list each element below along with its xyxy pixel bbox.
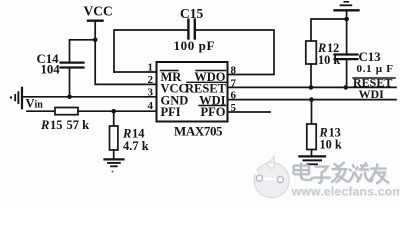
svg-text:1: 1 bbox=[148, 62, 154, 74]
node C14-GND junction bbox=[67, 95, 72, 100]
svg-text:WDI: WDI bbox=[359, 87, 385, 101]
C14 value labels bbox=[37, 52, 61, 77]
RESET net label bbox=[353, 76, 392, 90]
R12 value label bbox=[317, 41, 340, 67]
svg-text:4.7 k: 4.7 k bbox=[123, 139, 149, 153]
wire Vin input bbox=[27, 110, 55, 112]
op-amp U1 MAX705 IC body bbox=[157, 62, 228, 122]
IC pin labels left column bbox=[161, 70, 189, 119]
svg-text:R: R bbox=[40, 118, 49, 132]
wire MR loop (pin1 up, across top, down to WDO pin8) bbox=[114, 30, 188, 72]
wire C13 to RESET line bbox=[346, 60, 348, 88]
node PFI junction bbox=[111, 109, 116, 114]
resistor R13 bbox=[307, 124, 316, 150]
wire VCC branch to C14 bbox=[70, 40, 96, 62]
overline RESET bbox=[187, 81, 226, 83]
resistor R14 bbox=[110, 126, 118, 150]
overline PFO bbox=[199, 105, 226, 107]
speck bbox=[112, 171, 114, 173]
overline MR bbox=[161, 70, 179, 72]
wire VCC to C13 bbox=[346, 19, 348, 54]
svg-text:15: 15 bbox=[50, 118, 63, 132]
overline WDO bbox=[196, 70, 226, 72]
wire VCC stem right bbox=[346, 10, 348, 19]
svg-text:8: 8 bbox=[231, 65, 237, 77]
svg-text:V: V bbox=[26, 97, 35, 111]
svg-text:57 k: 57 k bbox=[67, 118, 90, 132]
VCC rail symbol bbox=[88, 20, 103, 22]
pin numbers right bbox=[231, 65, 237, 114]
R15 value label bbox=[40, 118, 89, 132]
MAX705 part label bbox=[174, 123, 223, 138]
svg-text:MAX705: MAX705 bbox=[174, 123, 223, 138]
watermark text dian bbox=[294, 162, 390, 184]
wire GND line to pin 3 bbox=[22, 96, 157, 98]
wire VCC stem down to pin 2 bbox=[95, 21, 156, 85]
ground (below R13) bbox=[300, 155, 326, 157]
capacitor C14 bbox=[61, 61, 84, 63]
svg-text:C15: C15 bbox=[180, 6, 203, 21]
capacitor C13 bbox=[335, 53, 358, 55]
ground (below R14) bbox=[105, 158, 124, 160]
VCC label bbox=[84, 4, 113, 19]
watermark url www.elecfans.com bbox=[291, 184, 400, 199]
wire WDI node down to R13 bbox=[311, 100, 313, 124]
resistor R12 bbox=[306, 41, 317, 64]
wire R13 to ground bbox=[311, 150, 313, 156]
svg-text:3: 3 bbox=[148, 86, 154, 98]
svg-text:PFO: PFO bbox=[201, 105, 226, 119]
svg-text:10 k: 10 k bbox=[320, 137, 342, 151]
svg-text:2: 2 bbox=[148, 74, 154, 86]
Vin label bbox=[26, 97, 44, 111]
wire pin 6 WDI net bbox=[228, 99, 396, 101]
C15 value labels bbox=[174, 6, 216, 53]
svg-text:in: in bbox=[35, 100, 44, 111]
wire pin 1 to IC bbox=[114, 71, 157, 73]
pin numbers left bbox=[148, 62, 154, 112]
wire pin 7 RESET net bbox=[228, 86, 396, 88]
wire PFI node down to R14 bbox=[113, 111, 115, 126]
watermark logo bbox=[252, 157, 290, 198]
svg-text:VCC: VCC bbox=[84, 4, 113, 19]
node C13-RESET junction bbox=[344, 85, 349, 90]
wire R14 to ground bbox=[113, 150, 115, 159]
wire C14 bottom lead bbox=[69, 68, 71, 97]
wire R12 to RESET line bbox=[310, 64, 312, 87]
wire VCC branch to R12 bbox=[311, 19, 347, 41]
IC pin labels right column bbox=[185, 70, 227, 119]
wire pin 5 PFO stub bbox=[228, 111, 270, 113]
capacitor C15 bbox=[187, 20, 189, 39]
C13 value labels bbox=[357, 50, 394, 75]
svg-text:104: 104 bbox=[41, 63, 61, 77]
svg-text:PFI: PFI bbox=[161, 105, 181, 119]
svg-text:www.elecfans.com: www.elecfans.com bbox=[291, 184, 400, 198]
overline RESET net bbox=[353, 77, 395, 79]
svg-text:4: 4 bbox=[148, 100, 154, 112]
R13 value label bbox=[319, 126, 342, 152]
WDI net label bbox=[359, 87, 385, 101]
ground (left, earth rotated) bbox=[10, 96, 12, 98]
resistor R15 bbox=[55, 108, 78, 115]
node VCC junction bbox=[93, 38, 98, 43]
svg-text:100 pF: 100 pF bbox=[174, 38, 216, 53]
node R13-WDI junction bbox=[309, 97, 314, 102]
wire R15 to pin 4 bbox=[78, 110, 157, 112]
node R12-RESET junction bbox=[309, 85, 314, 90]
VCC rail symbol (right) bbox=[335, 9, 359, 11]
svg-text:0.1 µ F: 0.1 µ F bbox=[357, 63, 394, 75]
R14 value label bbox=[122, 126, 149, 153]
node right VCC junction bbox=[344, 17, 349, 22]
